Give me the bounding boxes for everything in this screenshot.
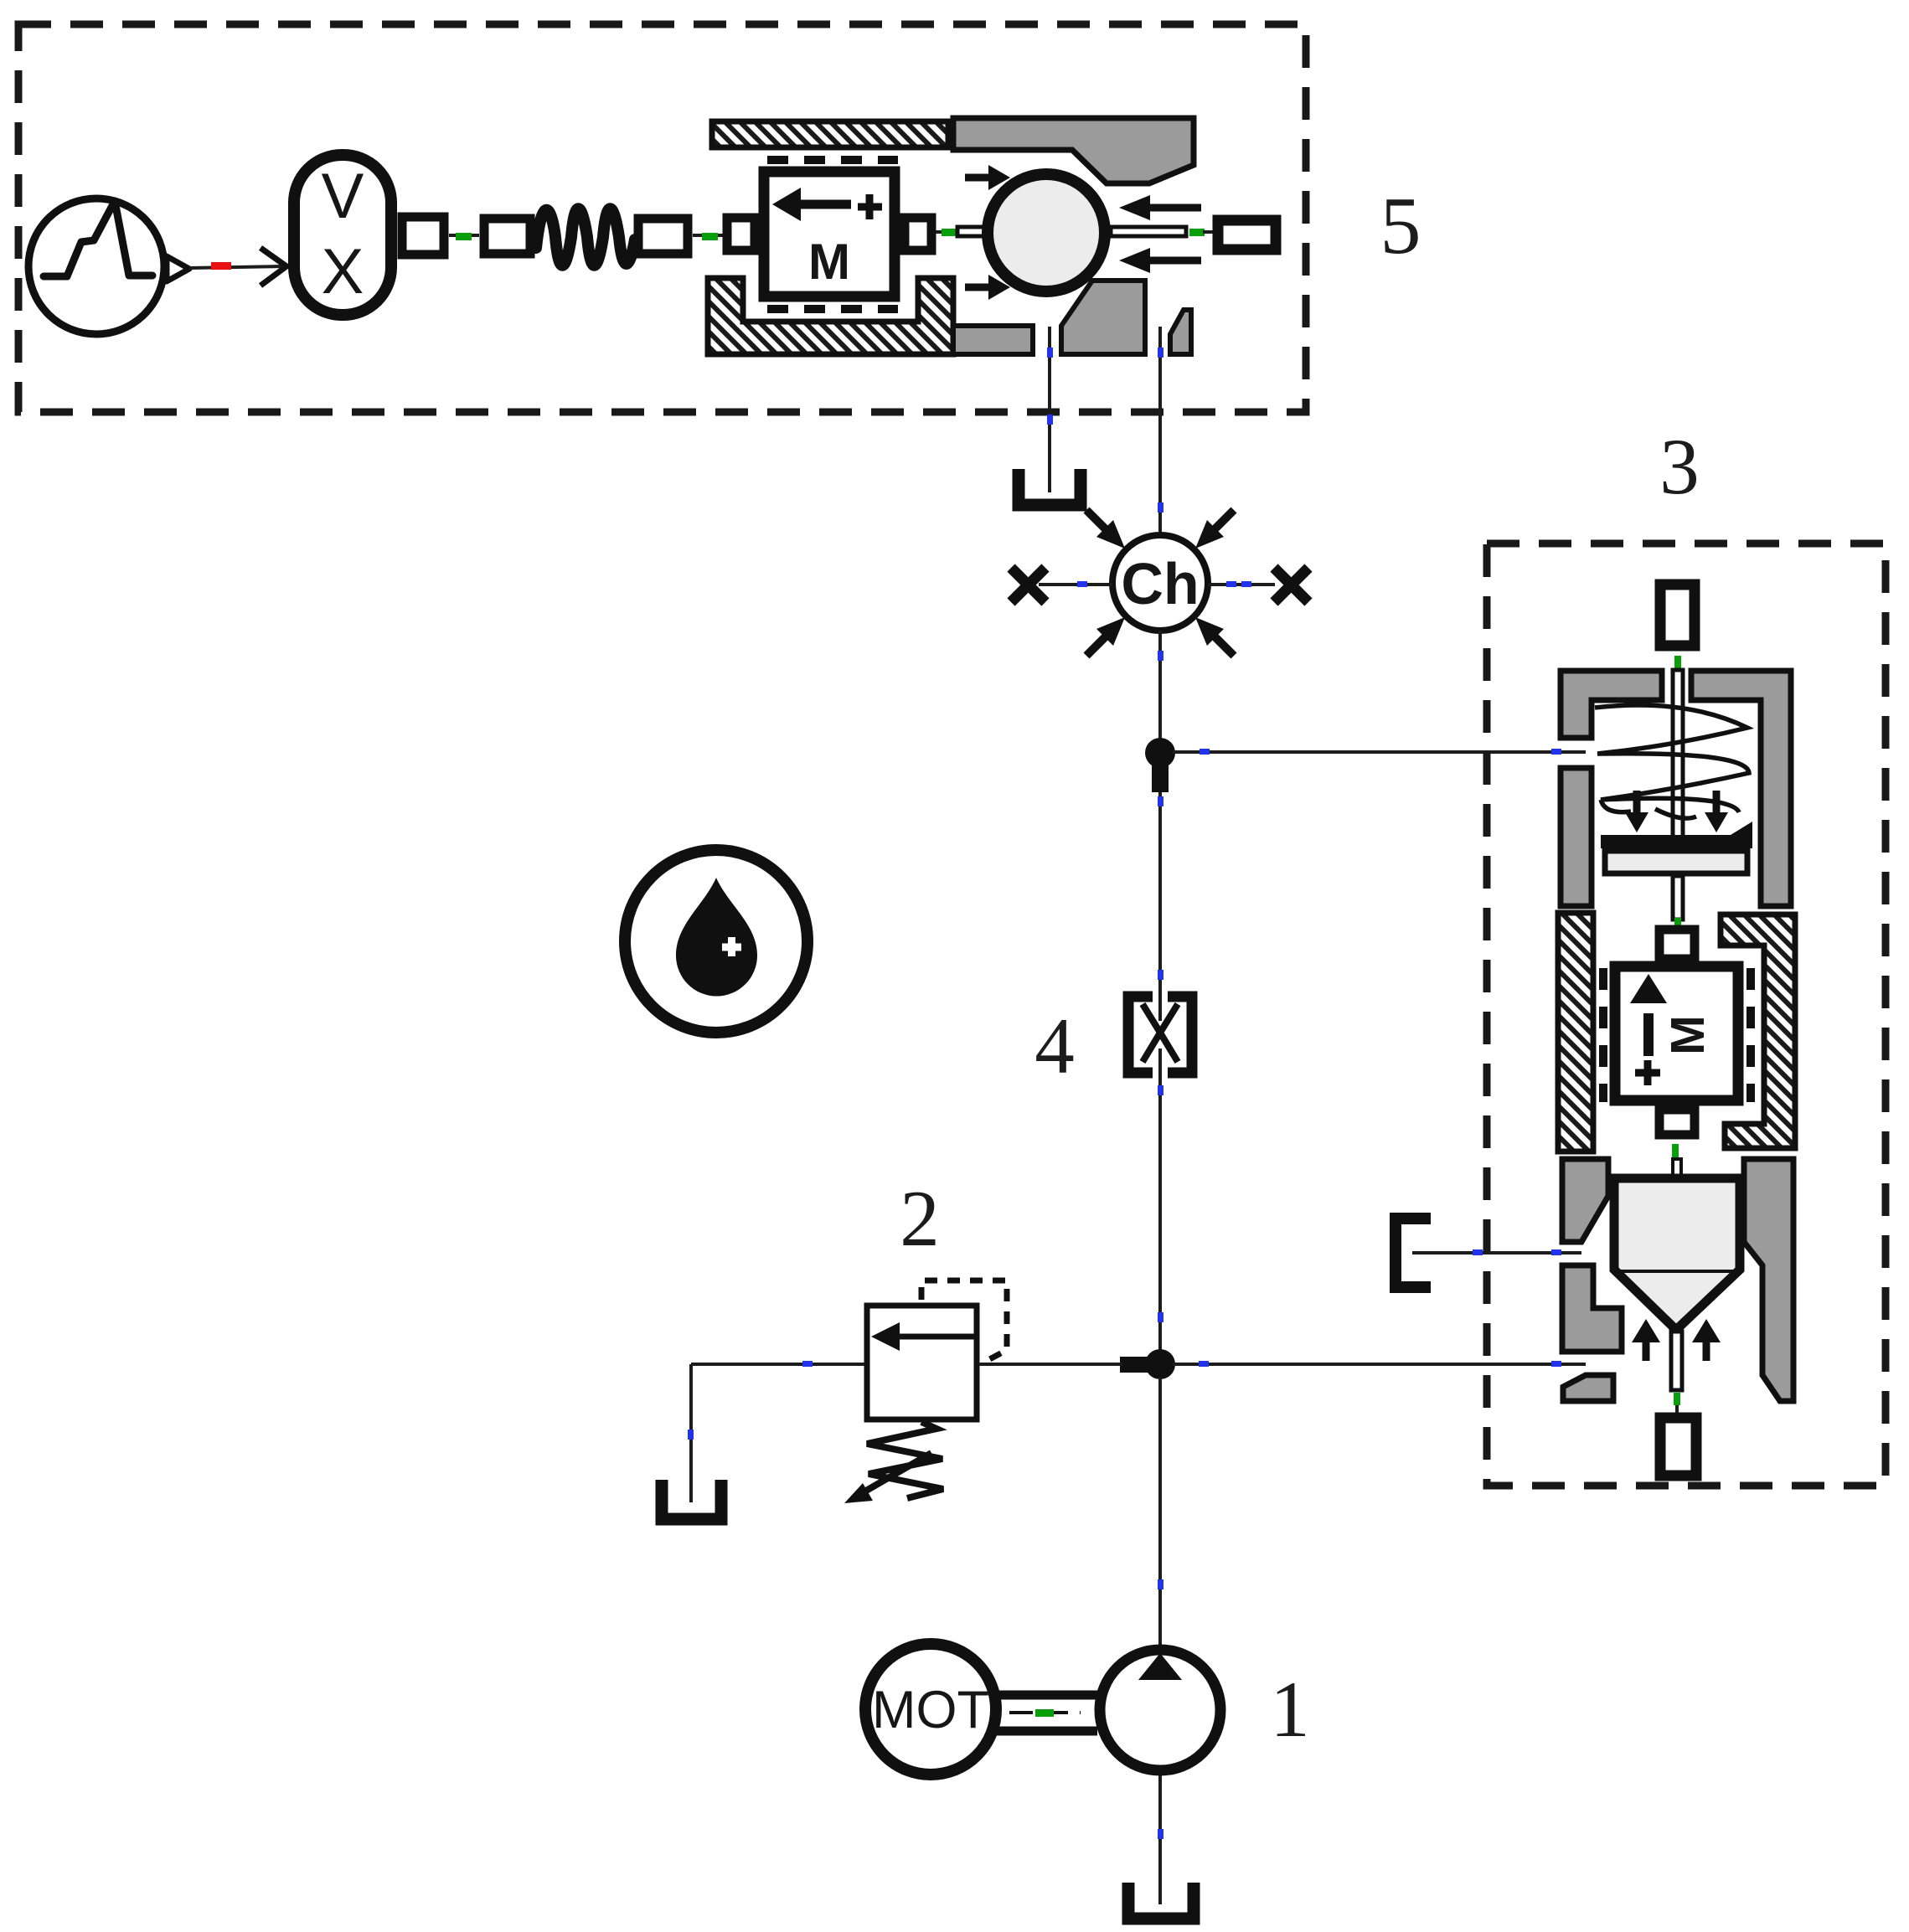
wire tank port to valve 3 <box>1412 1249 1581 1255</box>
relief valve pilot dashed line <box>921 1280 1007 1363</box>
dashed supercomponent box 5 <box>18 24 1306 412</box>
tank (below box 5) <box>1019 469 1081 505</box>
valve 3: friction dashes <box>1603 968 1751 1102</box>
dashed supercomponent box 3 <box>1487 544 1886 1486</box>
motor MOT <box>865 1644 996 1775</box>
svg-text:Ch: Ch <box>1121 551 1199 616</box>
wire ball rod to right port <box>1189 229 1215 236</box>
valve 3: piston plate <box>1601 822 1752 933</box>
wire valve outlet down to chamber <box>1158 327 1163 537</box>
relief valve spring <box>844 1422 943 1503</box>
svg-text:V: V <box>322 161 364 232</box>
svg-text:2: 2 <box>900 1174 940 1263</box>
flow arrows around ball <box>965 165 1201 300</box>
shaft motor to pump <box>996 1695 1097 1731</box>
wire spring to mass <box>693 233 725 240</box>
valve 3: hatched cylinder walls <box>1558 913 1795 1151</box>
wire chamber to junction <box>1158 631 1163 740</box>
valve 3: stem rod <box>1673 670 1683 837</box>
valve 3: poppet <box>1614 1159 1740 1419</box>
tank (pump suction) <box>1128 1883 1194 1919</box>
plug X left of chamber <box>1011 568 1045 602</box>
svg-text:4: 4 <box>1034 1002 1075 1090</box>
valve 3: conical spring <box>1595 705 1749 818</box>
valve 3: seat gray blocks <box>1562 1159 1793 1401</box>
valve 3: spring chamber housing <box>1561 671 1791 906</box>
wire relief valve to junction B <box>979 1363 1122 1366</box>
valve 3: bottom port <box>1660 1418 1696 1476</box>
velocity/displacement transducer VX <box>294 155 444 315</box>
wire relief valve to tank <box>688 1361 864 1502</box>
wire signal source to VX <box>189 248 286 286</box>
junction node A <box>1145 738 1175 792</box>
svg-text:M: M <box>808 234 850 290</box>
tank (relief valve) <box>662 1480 721 1519</box>
valve 3: flow arrows at seat <box>1632 1319 1721 1361</box>
svg-text:M: M <box>1661 1015 1715 1054</box>
valve 3: mass M block <box>1615 930 1738 1159</box>
wire chamber right plugged port <box>1208 581 1275 587</box>
svg-text:X: X <box>322 236 364 307</box>
wire pump suction to tank <box>1158 1775 1163 1904</box>
wire junction A to orifice <box>1158 792 1163 1021</box>
housing bottom gray blocks (box 5) <box>953 281 1191 354</box>
svg-text:5: 5 <box>1380 181 1421 271</box>
svg-text:3: 3 <box>1659 422 1700 511</box>
housing top hatched guide (box 5) <box>712 121 948 147</box>
valve 3: top port <box>1660 585 1695 671</box>
oil properties icon <box>625 850 807 1033</box>
wire valve drain to tank <box>1047 327 1053 492</box>
right end port (box 5) <box>1218 220 1276 250</box>
wire mass to ball rod <box>936 229 960 236</box>
signal source (piecewise linear) <box>28 198 189 334</box>
junction node B <box>1120 1349 1175 1379</box>
housing top gray block (box 5) <box>953 118 1194 183</box>
orifice 4 <box>1128 997 1192 1073</box>
svg-text:MOT: MOT <box>872 1681 989 1739</box>
wire junction A to pilot port of valve 3 <box>1173 749 1586 755</box>
tank port symbol (valve 3 drain) <box>1396 1218 1431 1287</box>
chamber Ch <box>1086 510 1234 656</box>
wire chamber left plugged port <box>1039 581 1112 587</box>
pump 1 <box>1100 1650 1220 1770</box>
wire orifice to junction B <box>1158 1048 1163 1351</box>
svg-text:1: 1 <box>1270 1665 1310 1754</box>
valve 3: force arrows on plate <box>1625 791 1728 832</box>
mass M with friction (box 5) <box>727 172 931 296</box>
plug X right of chamber <box>1274 568 1308 602</box>
wire junction B to valve 3 inlet <box>1173 1361 1586 1367</box>
relief valve 2 <box>867 1306 977 1419</box>
spring (box 5) with end ports <box>484 209 688 265</box>
friction contact dashes (box 5) <box>767 160 898 309</box>
wire junction B to pump <box>1158 1378 1163 1646</box>
housing bottom hatched guide (box 5) <box>708 278 953 354</box>
wire VX to spring port <box>449 233 479 240</box>
ball poppet (box 5) <box>957 174 1186 291</box>
